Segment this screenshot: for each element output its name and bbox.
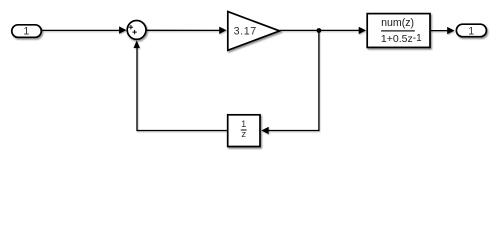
svg-text:z: z (241, 129, 246, 140)
svg-text:num(z): num(z) (381, 17, 414, 29)
svg-text:1+0.5z-1: 1+0.5z-1 (381, 33, 422, 45)
svg-text:1: 1 (23, 26, 29, 38)
svg-text:1: 1 (468, 26, 474, 38)
svg-text:3.17: 3.17 (234, 25, 257, 37)
